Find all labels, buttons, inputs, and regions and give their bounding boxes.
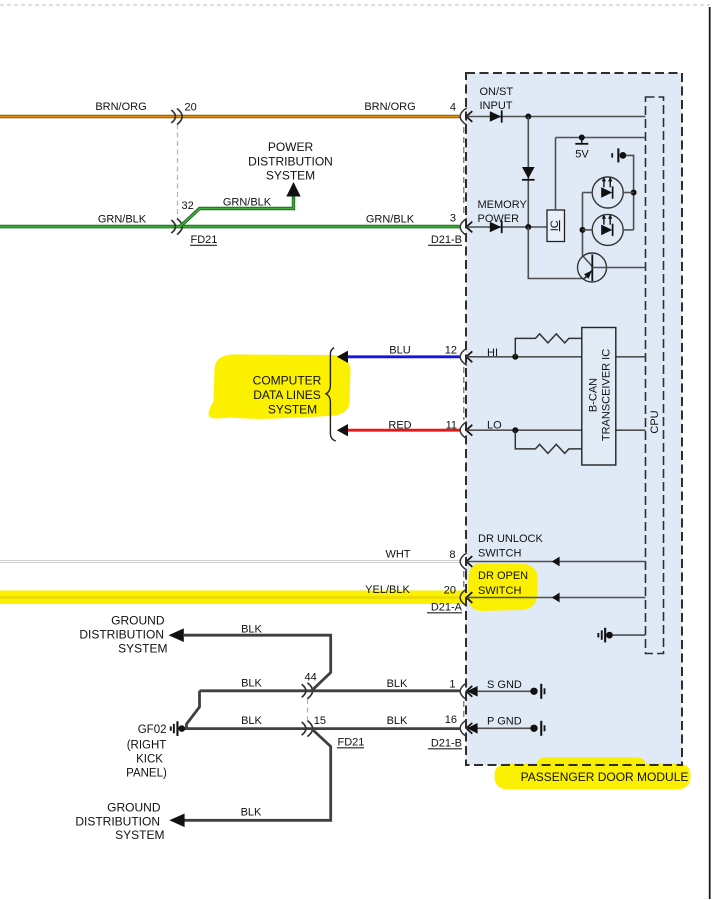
svg-text:PANEL): PANEL)	[126, 768, 167, 780]
junction dot	[631, 190, 637, 196]
pin 3 connector	[460, 218, 467, 235]
svg-text:BLU: BLU	[389, 345, 410, 357]
svg-text:FD21: FD21	[191, 234, 218, 246]
wire LO to CPU	[616, 429, 646, 431]
svg-text:COMPUTER: COMPUTER	[253, 373, 322, 387]
ground stud S GND	[530, 688, 537, 695]
svg-text:POWER: POWER	[268, 140, 314, 154]
svg-text:BRN/ORG: BRN/ORG	[364, 101, 415, 113]
wire HI to CPU	[616, 356, 646, 358]
svg-text:11: 11	[446, 420, 457, 432]
wire BLK branch to ground dist bottom	[185, 729, 331, 821]
svg-text:(RIGHT: (RIGHT	[127, 740, 167, 752]
page top dashed line	[0, 4, 710, 6]
arrow ground dist top	[169, 628, 184, 642]
resistor R2	[515, 430, 582, 453]
svg-text:DISTRIBUTION: DISTRIBUTION	[75, 814, 160, 828]
svg-text:POWER: POWER	[478, 213, 520, 225]
svg-text:DISTRIBUTION: DISTRIBUTION	[248, 155, 333, 169]
pin 16 connector	[460, 720, 467, 737]
wire HI	[467, 356, 582, 358]
svg-text:DR UNLOCK: DR UNLOCK	[478, 533, 543, 545]
svg-text:32: 32	[182, 200, 194, 212]
svg-text:GROUND: GROUND	[111, 614, 165, 628]
wire BLK ground 2	[184, 727, 460, 730]
wire base lead	[592, 267, 645, 269]
svg-text:P GND: P GND	[487, 716, 522, 728]
pin link dashes 12-11	[463, 367, 465, 420]
wire 5V rail	[556, 137, 646, 139]
svg-text:B-CAN: B-CAN	[588, 378, 600, 412]
svg-text:8: 8	[449, 549, 455, 561]
wire RED	[347, 429, 460, 432]
wire BLK branch to ground dist top	[184, 635, 331, 691]
pin 8 connector	[460, 553, 467, 570]
wire memory power	[467, 226, 548, 228]
svg-text:SYSTEM: SYSTEM	[115, 828, 164, 842]
diode D1	[490, 111, 502, 121]
svg-text:KICK: KICK	[136, 754, 163, 766]
wire on/st input	[467, 116, 646, 118]
pin 11 connector	[460, 422, 467, 439]
svg-text:12: 12	[445, 345, 457, 357]
page right border line	[709, 7, 711, 899]
connector C20 link dashes	[177, 124, 179, 219]
arrow s gnd	[467, 686, 478, 697]
wire stud to CPU	[613, 634, 646, 636]
CPU inner dashed box	[646, 97, 664, 654]
ground stud P GND	[530, 725, 537, 732]
resistor R1	[515, 334, 582, 357]
svg-text:1: 1	[449, 679, 455, 691]
svg-text:5V: 5V	[575, 149, 589, 161]
svg-text:BLK: BLK	[241, 624, 262, 636]
svg-text:RED: RED	[388, 420, 411, 432]
connector 15	[302, 722, 306, 735]
svg-text:20: 20	[185, 102, 197, 114]
wire BLK branch left to GF02	[187, 691, 200, 729]
wire LED column	[583, 193, 593, 267]
LED1	[592, 177, 623, 208]
svg-text:BLK: BLK	[241, 678, 262, 690]
svg-text:DISTRIBUTION: DISTRIBUTION	[79, 628, 164, 642]
wire GRN/BLK branch to power dist	[180, 195, 294, 227]
svg-text:BLK: BLK	[241, 715, 262, 727]
wire LED2 leads	[583, 229, 593, 231]
wire p gnd	[467, 727, 532, 729]
wire LO	[467, 429, 582, 431]
wire emitter feed	[528, 227, 584, 279]
svg-text:44: 44	[305, 672, 317, 684]
wire stud to LED rail	[626, 155, 634, 230]
svg-text:YEL/BLK: YEL/BLK	[365, 584, 410, 596]
svg-text:BLK: BLK	[387, 715, 408, 727]
svg-text:20: 20	[444, 585, 456, 597]
arrow to POWER DISTRIBUTION SYSTEM	[286, 182, 300, 197]
connector C44 link dashes	[307, 699, 309, 720]
passenger door module box fill	[466, 73, 682, 765]
ground stud internal top	[611, 153, 613, 157]
svg-text:SWITCH: SWITCH	[478, 548, 521, 560]
svg-text:DATA LINES: DATA LINES	[253, 388, 321, 402]
junction dot	[525, 114, 531, 120]
svg-text:TRANSCEIVER IC: TRANSCEIVER IC	[600, 349, 612, 441]
wire BLU	[347, 355, 460, 358]
wire dr open	[467, 597, 646, 599]
5V supply symbol	[579, 135, 585, 141]
diode D3	[490, 222, 502, 232]
arrow dr open	[552, 593, 560, 603]
junction dot	[525, 224, 531, 230]
junction dot	[580, 227, 586, 233]
svg-text:SYSTEM: SYSTEM	[268, 402, 317, 416]
svg-text:CPU: CPU	[649, 410, 661, 433]
pin link dashes 4-3	[463, 127, 465, 216]
pin link dashes 1-16	[463, 701, 465, 719]
svg-text:SWITCH: SWITCH	[478, 585, 521, 597]
diode D2	[522, 167, 535, 179]
svg-text:GRN/BLK: GRN/BLK	[98, 214, 147, 226]
wire LED1 leads	[583, 192, 593, 194]
arrow p gnd	[467, 723, 478, 734]
pin 20 connector	[460, 589, 467, 606]
arrow ground dist bottom	[169, 814, 184, 828]
connector 20	[171, 110, 175, 123]
svg-text:BLK: BLK	[241, 807, 262, 819]
connector 32	[171, 220, 175, 233]
arrow BLU	[337, 351, 348, 363]
svg-text:ON/ST: ON/ST	[480, 86, 514, 98]
svg-text:SYSTEM: SYSTEM	[266, 168, 315, 182]
wire BRN/ORG (left)	[0, 115, 460, 119]
pin 12 connector	[460, 348, 467, 365]
svg-text:D21-B: D21-B	[431, 738, 462, 750]
svg-text:SYSTEM: SYSTEM	[118, 642, 167, 656]
ground stud internal bottom	[597, 633, 599, 637]
wire WHT	[0, 560, 460, 563]
svg-text:GRN/BLK: GRN/BLK	[366, 214, 415, 226]
B-CAN transceiver IC box	[582, 328, 616, 466]
svg-text:S GND: S GND	[487, 679, 522, 691]
wire YEL/BLK (under highlight)	[0, 596, 460, 599]
highlighter band over YEL/BLK wire	[0, 591, 467, 605]
svg-text:GROUND: GROUND	[107, 800, 161, 814]
brace computer data lines	[326, 348, 336, 441]
svg-text:15: 15	[314, 715, 326, 727]
highlighter blob COMPUTER DATA LINES SYSTEM	[208, 355, 350, 419]
connector 44	[302, 684, 306, 697]
highlighter blob PASSENGER DOOR MODULE	[494, 764, 690, 790]
svg-text:BLK: BLK	[387, 678, 408, 690]
wire BLK ground 1	[200, 689, 460, 692]
svg-text:PASSENGER DOOR MODULE: PASSENGER DOOR MODULE	[521, 770, 689, 784]
arrow dr unlock	[552, 557, 560, 567]
wire IC to 5V rail	[555, 138, 557, 211]
wire vertical pin4 to pin3	[527, 117, 529, 228]
wire s gnd	[467, 690, 532, 692]
pin 4 connector	[460, 108, 467, 125]
svg-text:GRN/BLK: GRN/BLK	[223, 197, 272, 209]
svg-text:BRN/ORG: BRN/ORG	[95, 101, 146, 113]
svg-text:D21-B: D21-B	[431, 234, 462, 246]
pin link dashes 8-20	[463, 571, 465, 590]
wire GRN/BLK (left)	[0, 225, 460, 229]
arrow RED	[337, 424, 348, 436]
LED2	[592, 214, 623, 245]
svg-text:D21-A: D21-A	[431, 602, 463, 614]
IC box U1	[547, 210, 565, 242]
highlighter blob DR OPEN SWITCH	[468, 564, 538, 612]
pin 1 connector	[460, 683, 467, 700]
svg-text:MEMORY: MEMORY	[478, 199, 528, 211]
svg-text:3: 3	[450, 213, 456, 225]
wire dr unlock	[467, 561, 646, 563]
transistor Q1	[578, 253, 607, 282]
svg-text:FD21: FD21	[338, 737, 365, 749]
svg-text:4: 4	[450, 102, 456, 114]
svg-text:DR OPEN: DR OPEN	[478, 570, 528, 582]
passenger door module dashed border	[466, 73, 682, 765]
svg-text:IC: IC	[549, 220, 561, 231]
svg-text:WHT: WHT	[385, 549, 410, 561]
ground stud GF02	[170, 726, 172, 730]
svg-text:GF02: GF02	[138, 724, 167, 736]
svg-text:INPUT: INPUT	[480, 100, 513, 112]
svg-text:16: 16	[445, 714, 457, 726]
